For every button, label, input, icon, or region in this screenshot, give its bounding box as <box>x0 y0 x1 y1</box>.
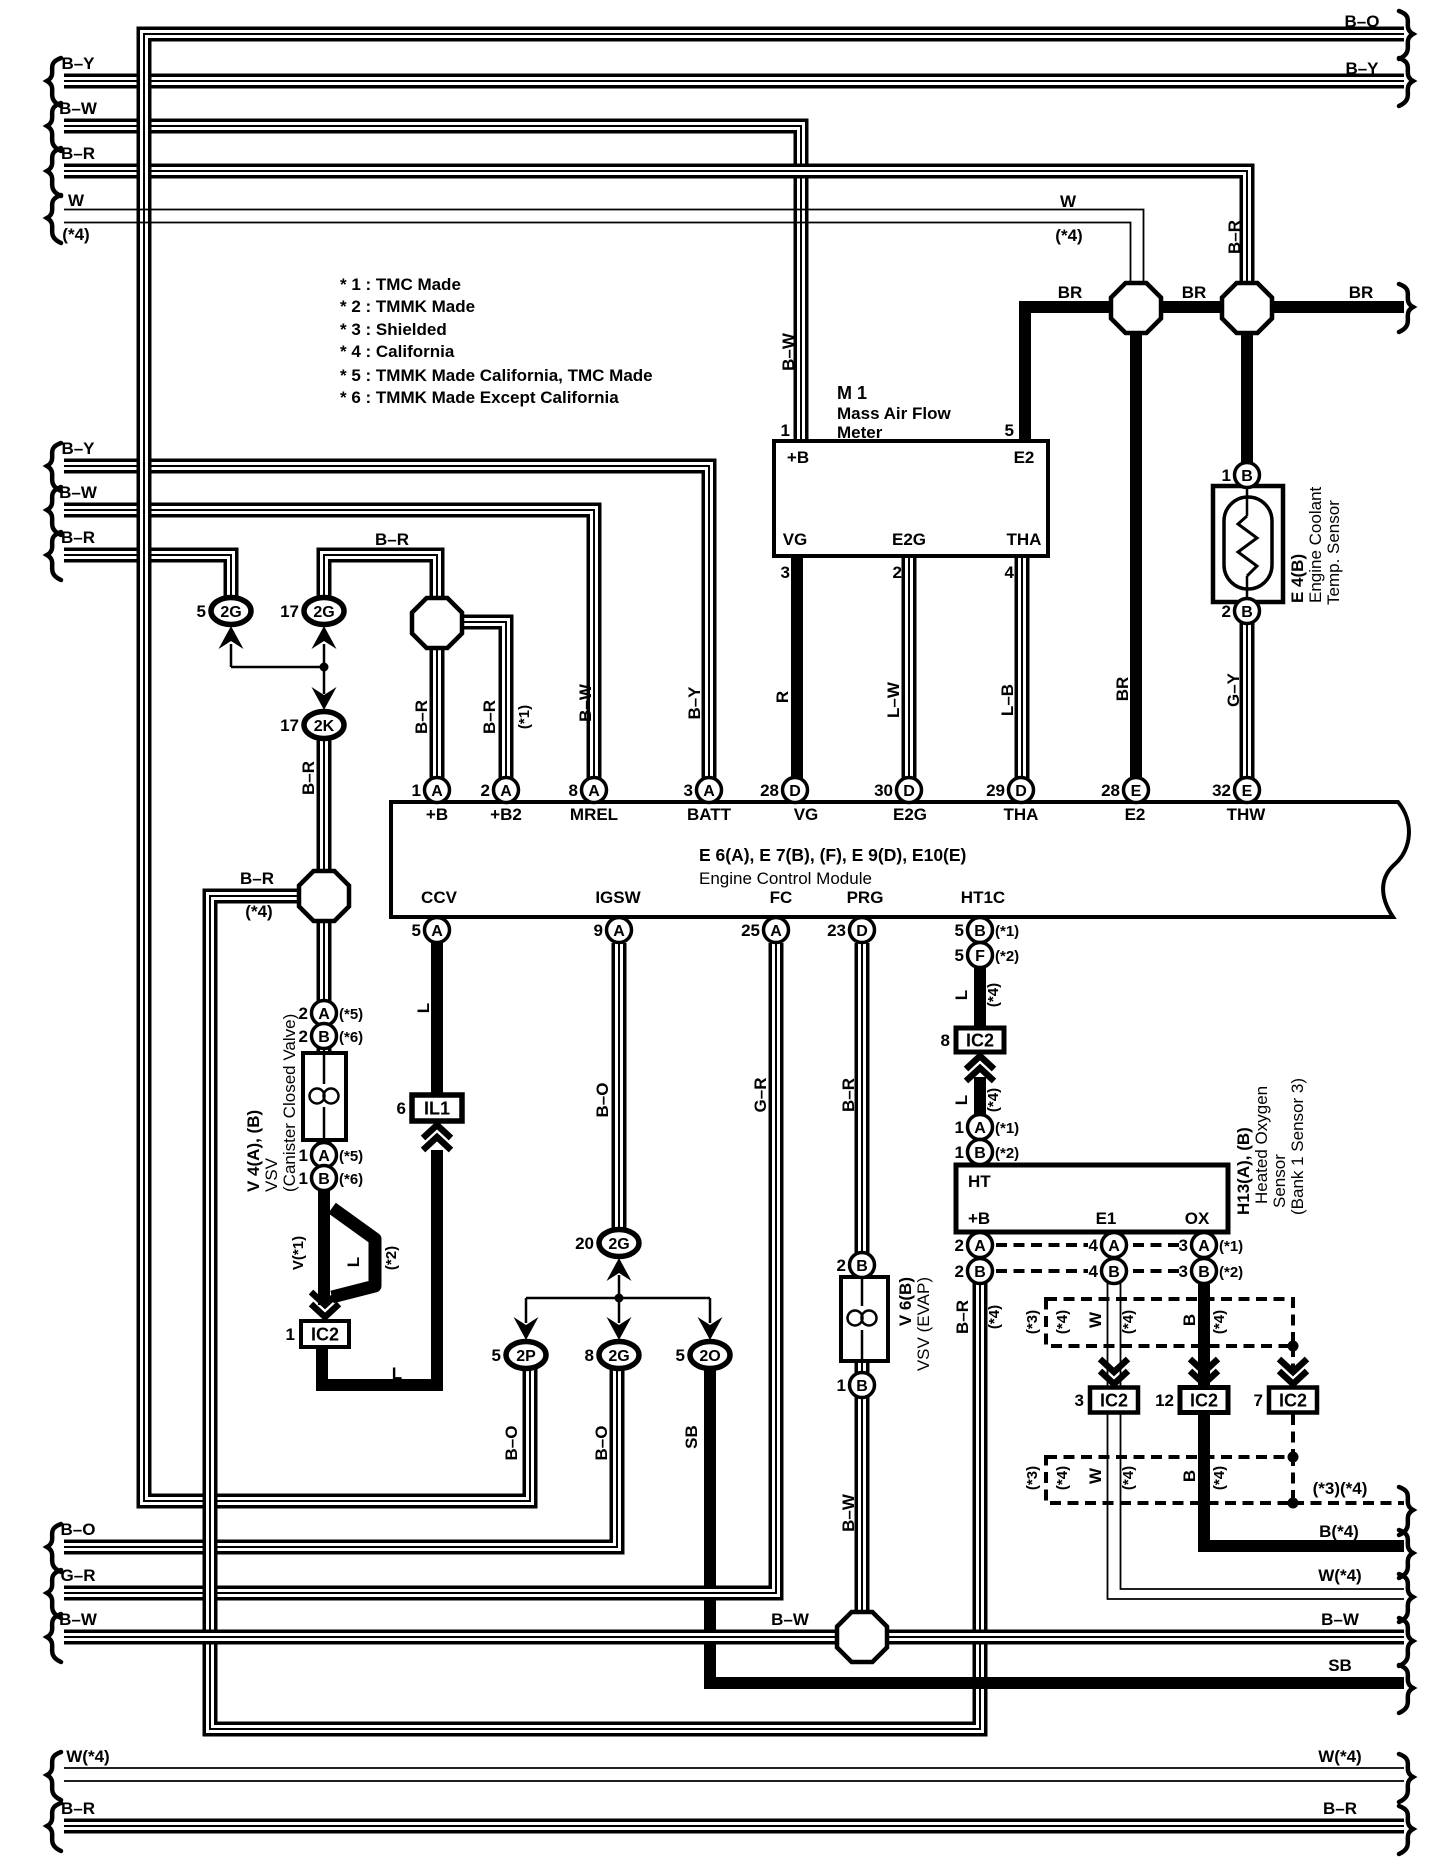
wire B-R junction J3 to ECM +B <box>430 646 445 790</box>
label rotated (*4) at 998,1100 <box>985 1088 1002 1112</box>
label V6 name <box>896 1277 915 1326</box>
svg-text:6: 6 <box>397 1099 406 1118</box>
connector 2G pin 17 <box>280 598 344 625</box>
label rotated (*3) at 1037,1478 <box>1024 1466 1041 1490</box>
svg-text:B–Y: B–Y <box>61 439 95 458</box>
svg-text:BR: BR <box>1349 283 1374 302</box>
VSV canister pin 2 connector A <box>299 1001 364 1026</box>
brace B-W bus bottom left <box>47 1614 61 1662</box>
svg-text:2: 2 <box>955 1236 964 1255</box>
svg-text:23: 23 <box>827 921 846 940</box>
label B-R octagon J4 wire <box>240 869 274 888</box>
dashed shield box 1 <box>1046 1299 1293 1346</box>
svg-text:30: 30 <box>874 781 893 800</box>
label MAF pin 1 <box>781 421 790 440</box>
HOS pin 1 connector B <box>955 1140 1020 1165</box>
label ECM subtitle <box>699 869 872 888</box>
svg-text:(*3): (*3) <box>1024 1466 1041 1490</box>
svg-text:4: 4 <box>1089 1262 1099 1281</box>
label rotated B&#8211;R at 854,1095 <box>839 1078 858 1112</box>
svg-text:Temp. Sensor: Temp. Sensor <box>1324 500 1343 605</box>
svg-text:FC: FC <box>770 888 793 907</box>
svg-text:B: B <box>1180 1470 1199 1482</box>
label W(*4) bus very bottom right <box>1318 1747 1361 1766</box>
HOS pin 3 OX connector B <box>1179 1259 1244 1284</box>
junction block IC2 pin 1 <box>286 1321 349 1347</box>
svg-text:V 6(B): V 6(B) <box>896 1277 915 1326</box>
svg-text:(*4): (*4) <box>985 983 1002 1007</box>
brace B(*4) bus right <box>1399 1530 1413 1578</box>
svg-text:(*4): (*4) <box>986 1305 1003 1329</box>
svg-text:B–R: B–R <box>61 144 95 163</box>
dashed link HOS pins row A <box>996 1243 1184 1247</box>
wire W(*4) HOS E1 to right edge <box>1108 1271 1405 1599</box>
label rotated V(*1) at 303,1253 <box>290 1236 307 1270</box>
label rotated (*2) at 396,1258 <box>383 1246 400 1270</box>
svg-text:B–W: B–W <box>839 1493 858 1532</box>
label rotated B&#8211;O at 608,1100 <box>593 1083 612 1118</box>
svg-text:B–R: B–R <box>61 528 95 547</box>
wire B-W bus crossing patch <box>697 1633 723 1641</box>
svg-text:W(*4): W(*4) <box>1318 1747 1361 1766</box>
svg-text:A: A <box>1198 1238 1210 1255</box>
svg-text:L–W: L–W <box>884 681 903 718</box>
svg-text:B–R: B–R <box>61 1799 95 1818</box>
label V4 line2 <box>280 1014 299 1192</box>
svg-text:B: B <box>856 1258 868 1275</box>
chevron arrow into IC2-3 <box>1100 1359 1128 1384</box>
label rotated L at 359,1262 <box>344 1257 363 1267</box>
junction block IC2 pin 8 <box>941 1028 1004 1052</box>
label B-W bus mid left <box>59 483 98 502</box>
label BR bus seg2 <box>1182 283 1207 302</box>
arrow into 2K-17 <box>312 687 337 710</box>
svg-text:2: 2 <box>837 1256 846 1275</box>
heated oxygen sensor H13 box <box>956 1165 1228 1232</box>
svg-text:B–W: B–W <box>771 1610 810 1629</box>
brace W bus top left <box>47 195 61 243</box>
ECM pin 23 PRG connector D <box>827 918 874 943</box>
wire B HOS OX to B(*4) bus <box>1204 1271 1404 1546</box>
svg-text:CCV: CCV <box>421 888 458 907</box>
wire G-R bus crossing patch <box>697 1589 723 1597</box>
label rotated L&#8211;B at 1013,700 <box>998 684 1017 716</box>
svg-text:3: 3 <box>1075 1391 1084 1410</box>
label BR bus seg1 <box>1058 283 1083 302</box>
svg-text:D: D <box>856 923 868 940</box>
label ECM top BATT <box>687 805 732 824</box>
svg-text:E 4(B): E 4(B) <box>1288 554 1307 603</box>
svg-text:L: L <box>952 990 971 1000</box>
svg-text:2G: 2G <box>313 604 334 621</box>
wire B-R connector 2G-17 to junction J3 <box>324 555 437 601</box>
dashed shield wire to IC2-7 <box>1291 1346 1295 1457</box>
svg-text:B–R: B–R <box>839 1078 858 1112</box>
svg-text:32: 32 <box>1212 781 1231 800</box>
label B-O bus bottom left <box>61 1520 96 1539</box>
label rotated (*4) at 1067,1478 <box>1054 1466 1071 1490</box>
label B(*4) bus right <box>1319 1522 1359 1541</box>
ECT sensor pin 2 connector B <box>1222 599 1260 624</box>
label MAF line1 <box>837 404 951 423</box>
svg-text:(*1): (*1) <box>995 923 1019 940</box>
svg-text:28: 28 <box>760 781 779 800</box>
chevron arrow into IC2-1 <box>311 1292 339 1317</box>
svg-text:E2G: E2G <box>892 530 926 549</box>
label B-R bus top left <box>61 144 95 163</box>
label rotated L at 967,995 <box>952 990 971 1000</box>
label ECM bottom PRG <box>847 888 884 907</box>
label ECM title <box>699 845 966 865</box>
svg-text:PRG: PRG <box>847 888 884 907</box>
svg-text:2: 2 <box>299 1027 308 1046</box>
label ECM top THW <box>1227 805 1267 824</box>
svg-text:1: 1 <box>412 781 421 800</box>
svg-text:IC2: IC2 <box>1190 1391 1218 1411</box>
svg-text:BR: BR <box>1058 283 1083 302</box>
svg-text:1: 1 <box>955 1118 964 1137</box>
wire B-O ECM IGSW to connector 2G-20 <box>612 943 627 1235</box>
wire B-Y bus top <box>64 74 1404 89</box>
label rotated B at 1195,1320 <box>1180 1314 1199 1326</box>
label V4 line1 <box>262 1157 281 1192</box>
svg-text:E2: E2 <box>1014 448 1035 467</box>
svg-text:(*2): (*2) <box>995 948 1019 965</box>
svg-text:VG: VG <box>783 530 808 549</box>
svg-text:B: B <box>974 1145 986 1162</box>
svg-text:E: E <box>1242 783 1253 800</box>
svg-text:A: A <box>770 923 782 940</box>
brace B-Y bus top right <box>1399 58 1413 106</box>
svg-text:(Canister Closed Valve): (Canister Closed Valve) <box>280 1014 299 1192</box>
svg-text:B: B <box>1198 1264 1210 1281</box>
wire L ECM HT1C to IC2-8 <box>974 953 986 1030</box>
label ECM top E2 <box>1125 805 1146 824</box>
label rotated B&#8211;W at 794,352 <box>779 332 798 371</box>
ECM pin 2 +B2 connector A <box>481 778 519 803</box>
svg-text:H13(A), (B): H13(A), (B) <box>1234 1127 1253 1215</box>
brace W(*4) bus right <box>1399 1574 1413 1622</box>
ECM pin 29 THA connector D <box>986 778 1033 803</box>
label ECM top THA <box>1004 805 1039 824</box>
brace B-W bus mid left <box>47 487 61 535</box>
svg-text:W(*4): W(*4) <box>1318 1566 1361 1585</box>
junction dot shield box2 top <box>1288 1452 1299 1463</box>
HOS pin 2 +B connector B <box>955 1259 993 1284</box>
svg-text:V 4(A), (B): V 4(A), (B) <box>244 1110 263 1192</box>
svg-text:2: 2 <box>1222 602 1231 621</box>
arrow into 2G-20 <box>607 1258 632 1281</box>
svg-text:W(*4): W(*4) <box>66 1747 109 1766</box>
svg-text:HT: HT <box>968 1172 991 1191</box>
label ECM bottom IGSW <box>595 888 641 907</box>
connector 2G pin 20 <box>575 1230 639 1257</box>
wire B-R(*4) HOS +B loop to junction J4 <box>210 896 980 1729</box>
svg-text:17: 17 <box>280 716 299 735</box>
VSV EVAP pin 2 connector B <box>837 1253 875 1278</box>
junction octagon J1 <box>1111 283 1161 333</box>
wire B-R junction J3 to ECM +B2 <box>461 622 506 790</box>
connector 2O pin 5 <box>676 1342 730 1369</box>
svg-text:(*4): (*4) <box>1055 226 1082 245</box>
svg-text:E2G: E2G <box>893 805 927 824</box>
junction octagon J5 on B-W bus <box>837 1612 887 1662</box>
svg-text:B–R: B–R <box>299 761 318 795</box>
svg-text:B–R: B–R <box>375 530 409 549</box>
label ECM bottom FC <box>770 888 793 907</box>
svg-text:8: 8 <box>941 1031 950 1050</box>
dashed shield box 2 <box>1046 1457 1293 1503</box>
svg-text:3: 3 <box>781 563 790 582</box>
svg-text:(*3): (*3) <box>1024 1310 1041 1334</box>
ECM pin 8 MREL connector A <box>569 778 607 803</box>
wire B-O bus bottom to connector 2G-8 <box>64 1355 617 1547</box>
label rotated B&#8211;O at 517,1443 <box>502 1426 521 1461</box>
chevron arrow into IL1 <box>423 1125 451 1150</box>
label E4 name <box>1288 554 1307 603</box>
svg-text:28: 28 <box>1101 781 1120 800</box>
svg-text:BR: BR <box>1113 677 1132 702</box>
junction octagon J3 <box>412 598 462 648</box>
wire BR thick bus through junctions J1 J2 <box>1025 307 1404 441</box>
label rotated B&#8211;W at 854,1513 <box>839 1493 858 1532</box>
wire link 2G-5 2G-17 arrows <box>231 644 324 694</box>
svg-text:9: 9 <box>594 921 603 940</box>
label B-R bus very bottom right <box>1323 1799 1357 1818</box>
svg-text:B: B <box>974 1264 986 1281</box>
label ECM top +B2 <box>490 805 522 824</box>
arrow into 2G-17 <box>312 626 337 649</box>
dashed shield wire (*3)(*4) to right edge <box>1293 1501 1404 1505</box>
arrow into 2G-5 <box>219 626 244 649</box>
svg-text:Heated Oxygen: Heated Oxygen <box>1252 1086 1271 1204</box>
svg-text:Sensor: Sensor <box>1270 1154 1289 1208</box>
label rotated B&#8211;Y at 700,703 <box>685 686 704 720</box>
VSV EVAP V6 coil box <box>841 1277 888 1361</box>
label MAF THA <box>1007 530 1042 549</box>
svg-text:OX: OX <box>1185 1209 1210 1228</box>
svg-text:(*5): (*5) <box>339 1006 363 1023</box>
svg-text:D: D <box>789 783 801 800</box>
label B-R bus mid left <box>61 528 95 547</box>
label HOS HT <box>968 1172 991 1191</box>
wire B-O bus top long loop to connector 2P <box>144 34 1404 1501</box>
svg-text:5: 5 <box>955 946 964 965</box>
funnel V(*1)/(*2) wire symbol <box>332 1208 375 1297</box>
svg-text:B–R: B–R <box>412 700 431 734</box>
label V4 name <box>244 1110 263 1192</box>
svg-text:VSV (EVAP): VSV (EVAP) <box>914 1277 933 1371</box>
svg-text:B–O: B–O <box>593 1083 612 1118</box>
brace W bus very bottom left <box>47 1752 61 1800</box>
label HOS E1 <box>1096 1209 1117 1228</box>
brace B-Y bus mid left <box>47 443 61 491</box>
junction block IL1 pin 6 <box>397 1095 462 1121</box>
svg-text:(*6): (*6) <box>339 1171 363 1188</box>
label rotated (*4) at 1133,1478 <box>1120 1466 1137 1490</box>
label H13 line3 <box>1288 1078 1307 1215</box>
wire B-R ECM PRG through VSV EVAP to junction J5 <box>855 943 870 1613</box>
svg-text:D: D <box>903 783 915 800</box>
svg-text:B–R: B–R <box>953 1300 972 1334</box>
arrow into 2G-8 <box>607 1317 632 1340</box>
svg-text:G–R: G–R <box>61 1566 96 1585</box>
label rotated (*1) at 529,717 <box>516 705 533 729</box>
svg-text:(*4): (*4) <box>1120 1310 1137 1334</box>
svg-text:L: L <box>392 1364 402 1383</box>
brace B-Y bus top left <box>47 58 61 106</box>
ECM pin 25 FC connector A <box>741 918 788 943</box>
svg-text:W: W <box>1086 1467 1105 1484</box>
brace B-W bus bottom right <box>1399 1618 1413 1666</box>
svg-text:(*2): (*2) <box>995 1145 1019 1162</box>
label HOS +B <box>968 1209 990 1228</box>
svg-text:20: 20 <box>575 1234 594 1253</box>
wire B-W bus top to MAF +B <box>64 126 801 441</box>
junction octagon J4 <box>299 871 349 921</box>
label rotated (*4) at 999,1317 <box>986 1305 1003 1329</box>
label H13 name <box>1234 1127 1253 1215</box>
svg-text:29: 29 <box>986 781 1005 800</box>
ECM pin 1 +B connector A <box>412 778 450 803</box>
svg-text:(*4): (*4) <box>985 1088 1002 1112</box>
brace B-O bus bottom left <box>47 1524 61 1572</box>
svg-text:(*4): (*4) <box>1120 1466 1137 1490</box>
svg-text:4: 4 <box>1089 1236 1099 1255</box>
svg-text:Engine Control Module: Engine Control Module <box>699 869 872 888</box>
label W(*4) bus right <box>1318 1566 1361 1585</box>
svg-text:A: A <box>431 923 443 940</box>
label MAF pin 2 <box>893 563 902 582</box>
svg-text:B: B <box>1241 604 1253 621</box>
wire B-W bus bottom <box>64 1630 1404 1645</box>
svg-text:25: 25 <box>741 921 760 940</box>
svg-text:W: W <box>68 191 85 210</box>
legend note *1..*6 <box>340 275 653 407</box>
wire B-W bus mid to ECM MREL <box>64 510 594 790</box>
svg-text:IC2: IC2 <box>311 1325 339 1345</box>
svg-text:V(*1): V(*1) <box>290 1236 307 1270</box>
junction block IC2 pin 12 <box>1155 1388 1228 1413</box>
junction dot at 2G-17 link <box>320 663 329 672</box>
svg-text:* 5 : TMMK Made California, T: * 5 : TMMK Made California, TMC Made <box>340 366 653 385</box>
brace SB bus right <box>1399 1665 1413 1713</box>
label rotated SB at 697,1437 <box>682 1425 701 1449</box>
svg-text:(Bank 1 Sensor 3): (Bank 1 Sensor 3) <box>1288 1078 1307 1215</box>
wire V/L VSV canister pin 1 to funnel <box>318 1178 330 1305</box>
svg-text:B–O: B–O <box>1345 12 1380 31</box>
svg-text:2G: 2G <box>608 1236 629 1253</box>
svg-text:5: 5 <box>492 1346 501 1365</box>
junction dot shield box1 <box>1288 1341 1299 1352</box>
svg-text:B: B <box>1241 468 1253 485</box>
label H13 line2 <box>1270 1154 1289 1208</box>
svg-text:3: 3 <box>684 781 693 800</box>
label rotated B&#8211;W at 591,703 <box>576 683 595 722</box>
svg-text:W: W <box>1060 192 1077 211</box>
HOS pin 1 connector A <box>955 1115 1020 1140</box>
label rotated B at 1195,1476 <box>1180 1470 1199 1482</box>
label rotated B&#8211;R at 427,717 <box>412 700 431 734</box>
svg-text:+B: +B <box>426 805 448 824</box>
svg-text:* 1 : TMC Made: * 1 : TMC Made <box>340 275 461 294</box>
svg-text:4: 4 <box>1005 563 1015 582</box>
svg-text:BATT: BATT <box>687 805 732 824</box>
svg-text:A: A <box>318 1148 330 1165</box>
svg-text:IGSW: IGSW <box>595 888 641 907</box>
label B-R bus very bottom left <box>61 1799 95 1818</box>
svg-text:(*1): (*1) <box>995 1120 1019 1137</box>
label W corner top <box>1060 192 1077 211</box>
svg-text:2: 2 <box>299 1004 308 1023</box>
chevron arrow into IC2-8 <box>966 1056 994 1081</box>
svg-text:2K: 2K <box>314 718 335 735</box>
svg-text:W: W <box>1086 1311 1105 1328</box>
wire L-W MAF E2G to ECM E2G <box>902 556 917 790</box>
label HOS OX <box>1185 1209 1210 1228</box>
wire link 2G-20 to 2P 2G 2O arrows <box>526 1275 710 1323</box>
svg-text:5: 5 <box>412 921 421 940</box>
wire G-Y ECT sensor to ECM THW <box>1240 620 1255 790</box>
svg-text:BR: BR <box>1182 283 1207 302</box>
svg-text:B–W: B–W <box>59 99 98 118</box>
svg-text:Meter: Meter <box>837 423 883 442</box>
engine coolant temp sensor E4 box <box>1213 486 1283 602</box>
ECM pin 9 IGSW connector A <box>594 918 632 943</box>
svg-text:B: B <box>1108 1264 1120 1281</box>
label B-O bus top right <box>1345 12 1380 31</box>
label rotated L at 429,1008 <box>414 1003 433 1013</box>
svg-text:5: 5 <box>197 602 206 621</box>
label ECM top VG <box>794 805 819 824</box>
svg-text:B–O: B–O <box>502 1426 521 1461</box>
label MAF VG <box>783 530 808 549</box>
label ECM top MREL <box>570 805 618 824</box>
svg-text:B: B <box>856 1378 868 1395</box>
label W(*4) bus very bottom left <box>66 1747 109 1766</box>
svg-text:B: B <box>974 923 986 940</box>
brace B-R bus very bottom left <box>47 1803 61 1851</box>
svg-text:B–O: B–O <box>61 1520 96 1539</box>
svg-text:B–W: B–W <box>779 332 798 371</box>
label ECM top +B <box>426 805 448 824</box>
wire W bus top to junction J1 <box>64 210 1144 286</box>
svg-text:E: E <box>1131 783 1142 800</box>
label rotated (*3) at 1037,1322 <box>1024 1310 1041 1334</box>
wire B-R junction J4 to VSV canister pin 2 <box>317 919 332 1165</box>
svg-text:B: B <box>318 1171 330 1188</box>
label rotated (*4) at 1224,1478 <box>1211 1466 1228 1490</box>
label SB bus right <box>1328 1656 1352 1675</box>
label L near IC2-1 run <box>392 1364 402 1383</box>
junction block IC2 pin 3 <box>1075 1388 1138 1413</box>
svg-text:(*1): (*1) <box>516 705 533 729</box>
wire B-R bus mid to connector 2G-5 <box>64 555 231 600</box>
svg-text:B: B <box>318 1029 330 1046</box>
label (*4) octagon J4 wire <box>245 902 272 921</box>
svg-text:A: A <box>613 923 625 940</box>
svg-text:THA: THA <box>1004 805 1039 824</box>
svg-text:F: F <box>975 948 985 965</box>
VSV canister closed valve V4 coil box <box>303 1053 346 1140</box>
wire L-B MAF THA to ECM THA <box>1015 556 1030 790</box>
svg-text:(*4): (*4) <box>1211 1310 1228 1334</box>
label ECM bottom CCV <box>421 888 458 907</box>
label B-R 2G-17 branch <box>375 530 409 549</box>
svg-text:1: 1 <box>1222 466 1231 485</box>
brace G-R bus bottom left <box>47 1570 61 1618</box>
label MAF pin 3 <box>781 563 790 582</box>
